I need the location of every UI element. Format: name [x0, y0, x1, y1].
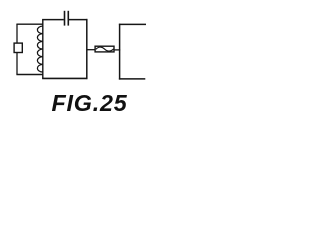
right box bottom edge [119, 78, 145, 80]
right box top edge [119, 23, 146, 25]
capacitor C1 left plate [64, 11, 66, 26]
caption FIG.25 [52, 90, 128, 117]
crystal body box bottom edge [42, 77, 87, 79]
wire : left branch vertical [16, 24, 18, 74]
wire : left branch top horizontal [16, 23, 43, 25]
inductor L1 (coil on left edge of middle box) [37, 26, 42, 72]
crystal body box top edge left segment [42, 19, 64, 21]
wire : middle box to oscillator box [87, 49, 95, 51]
crystal body box right edge [86, 19, 88, 79]
sine wave symbol inside U1 [96, 47, 114, 51]
oscillator box U1 (box with sine symbol) [95, 46, 114, 52]
wire : oscillator box to right box [114, 49, 120, 51]
capacitor C1 right plate [67, 11, 69, 26]
resistor box R1 (small box on left branch) [14, 43, 22, 52]
right box (open on right side) left edge [119, 24, 121, 80]
crystal body box top edge right segment [69, 19, 88, 21]
wire : left branch bottom horizontal [16, 74, 43, 76]
crystal body box (middle rectangle) left edge [42, 20, 44, 79]
